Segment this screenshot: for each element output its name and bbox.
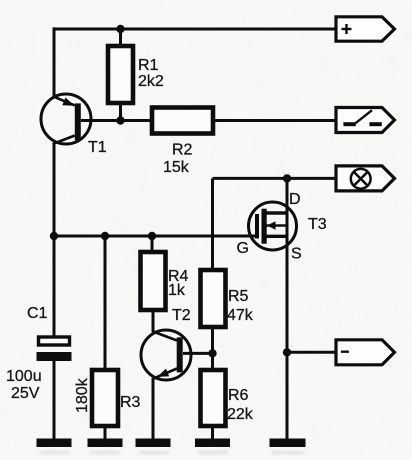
svg-text:S: S [291,246,302,263]
wire: top supply rail [54,28,336,31]
label R2 value 15k [163,142,193,177]
label R4 value 1k [168,268,189,299]
wire: left vertical from top rail to T1 emitter [53,27,56,97]
wire: lamp rail from corner to lamp connector [213,178,337,270]
wire: R2 to switch connector [213,119,336,122]
svg-text:25V: 25V [11,385,40,402]
capacitor C1 (electrolytic) [37,337,72,439]
ground symbol 3 (T2 emitter) [136,439,171,448]
node: junction lamp rail / T3 drain [283,174,291,182]
wire: T3 source down to ground and minus junction [286,213,289,439]
svg-text:15k: 15k [163,159,190,176]
wire: T1 base to R2 [81,119,152,122]
connector - (minus terminal) [336,340,395,365]
svg-text:1k: 1k [168,282,186,299]
svg-text:22k: 22k [227,406,254,423]
node: junction R5/R6/T2 base [208,349,216,357]
transistor T3 (N-MOSFET) [249,202,297,250]
scan shadow artifacts under ground bars [40,451,304,454]
svg-text:G: G [237,240,249,257]
label R5 value 47k [227,288,254,324]
transistor T2 (NPN) [141,330,191,380]
label R1 value 2k2 [138,57,164,90]
ground symbol 5 (T3 source) [270,439,306,448]
wire: gate rail (mid horizontal) [54,235,256,238]
transistor T1 (PNP) [41,94,91,144]
svg-text:R5: R5 [228,288,249,305]
resistor R2 [152,108,213,134]
wire: minus wire to connector [287,351,336,354]
svg-text:47k: 47k [227,307,254,324]
svg-text:2k2: 2k2 [138,73,164,90]
connector lamp terminal [336,166,395,191]
ground symbol 4 (R6) [195,439,230,448]
wire: T1 collector down to C1 [53,143,56,338]
resistor R5 [201,270,226,371]
connector + (plus terminal) [336,17,395,41]
svg-text:R6: R6 [228,387,249,404]
node: junction mid rail / R4 [148,232,156,240]
svg-text:100u: 100u [6,368,42,385]
svg-text:T3: T3 [308,216,327,233]
resistor R4 [141,236,166,332]
connector switch terminal [336,108,395,133]
node: junction mid rail / left vertical [50,232,58,240]
wire: T2 base to divider junction [183,352,213,355]
svg-text:R2: R2 [172,142,193,159]
node: junction mid rail / R3 [101,232,109,240]
node: junction R1 / base wire [116,116,124,124]
resistor R3 [92,236,118,439]
resistor R6 [201,370,226,439]
svg-text:D: D [289,191,301,208]
wire: T3 drain lead [286,178,289,213]
svg-text:R3: R3 [120,394,141,411]
ground symbol 2 (R3) [88,439,123,448]
node: junction source / minus wire [283,348,291,356]
ground symbol 1 (C1) [37,439,72,448]
svg-text:T1: T1 [88,139,107,156]
label R6 value 22k [227,387,254,423]
resistor R1 [108,29,133,121]
node: junction top rail / R1 [116,25,124,33]
wire: T2 emitter to ground [152,378,155,439]
svg-text:T2: T2 [172,307,191,324]
svg-text:C1: C1 [27,305,48,322]
svg-text:180k: 180k [74,377,91,413]
label C1 value 100u 25V [6,368,42,402]
svg-text:R1: R1 [138,57,159,74]
